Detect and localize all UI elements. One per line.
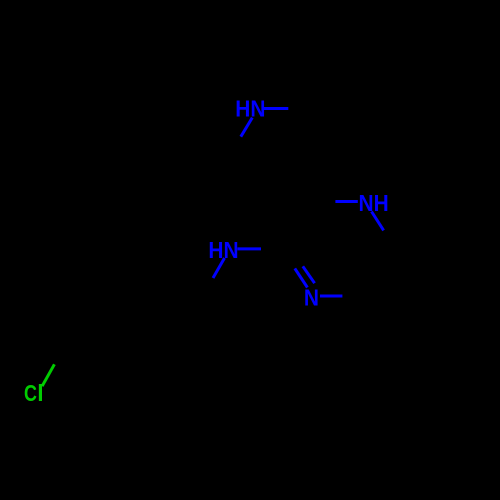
piperidine N-H label (top) xyxy=(235,96,265,122)
ring N-H label (right) xyxy=(359,190,389,216)
svg-text:N: N xyxy=(304,285,319,311)
half-bond from right NH going left xyxy=(335,200,357,203)
chlorine label: l glyph xyxy=(37,380,43,406)
half-bond from top NH going down-left xyxy=(241,118,253,137)
chlorine label: C glyph xyxy=(24,381,37,407)
secondary amine H-N label (middle left) xyxy=(208,237,238,263)
C=N double bond inner line (N half) xyxy=(303,266,315,283)
half-bond from right NH going down-right xyxy=(372,212,384,231)
half-bond from amine N going right xyxy=(237,247,261,250)
half-bond from Cl going up-right to aryl C xyxy=(42,364,54,386)
half-bond from amine N going down-left to benzyl CH2 xyxy=(213,258,225,278)
imine N label xyxy=(304,285,319,311)
svg-text:C: C xyxy=(24,381,37,407)
half-bond from imine N going right xyxy=(320,295,342,298)
half-bond from top NH going right xyxy=(264,107,289,110)
C=N double bond main line (N half) xyxy=(295,268,308,287)
